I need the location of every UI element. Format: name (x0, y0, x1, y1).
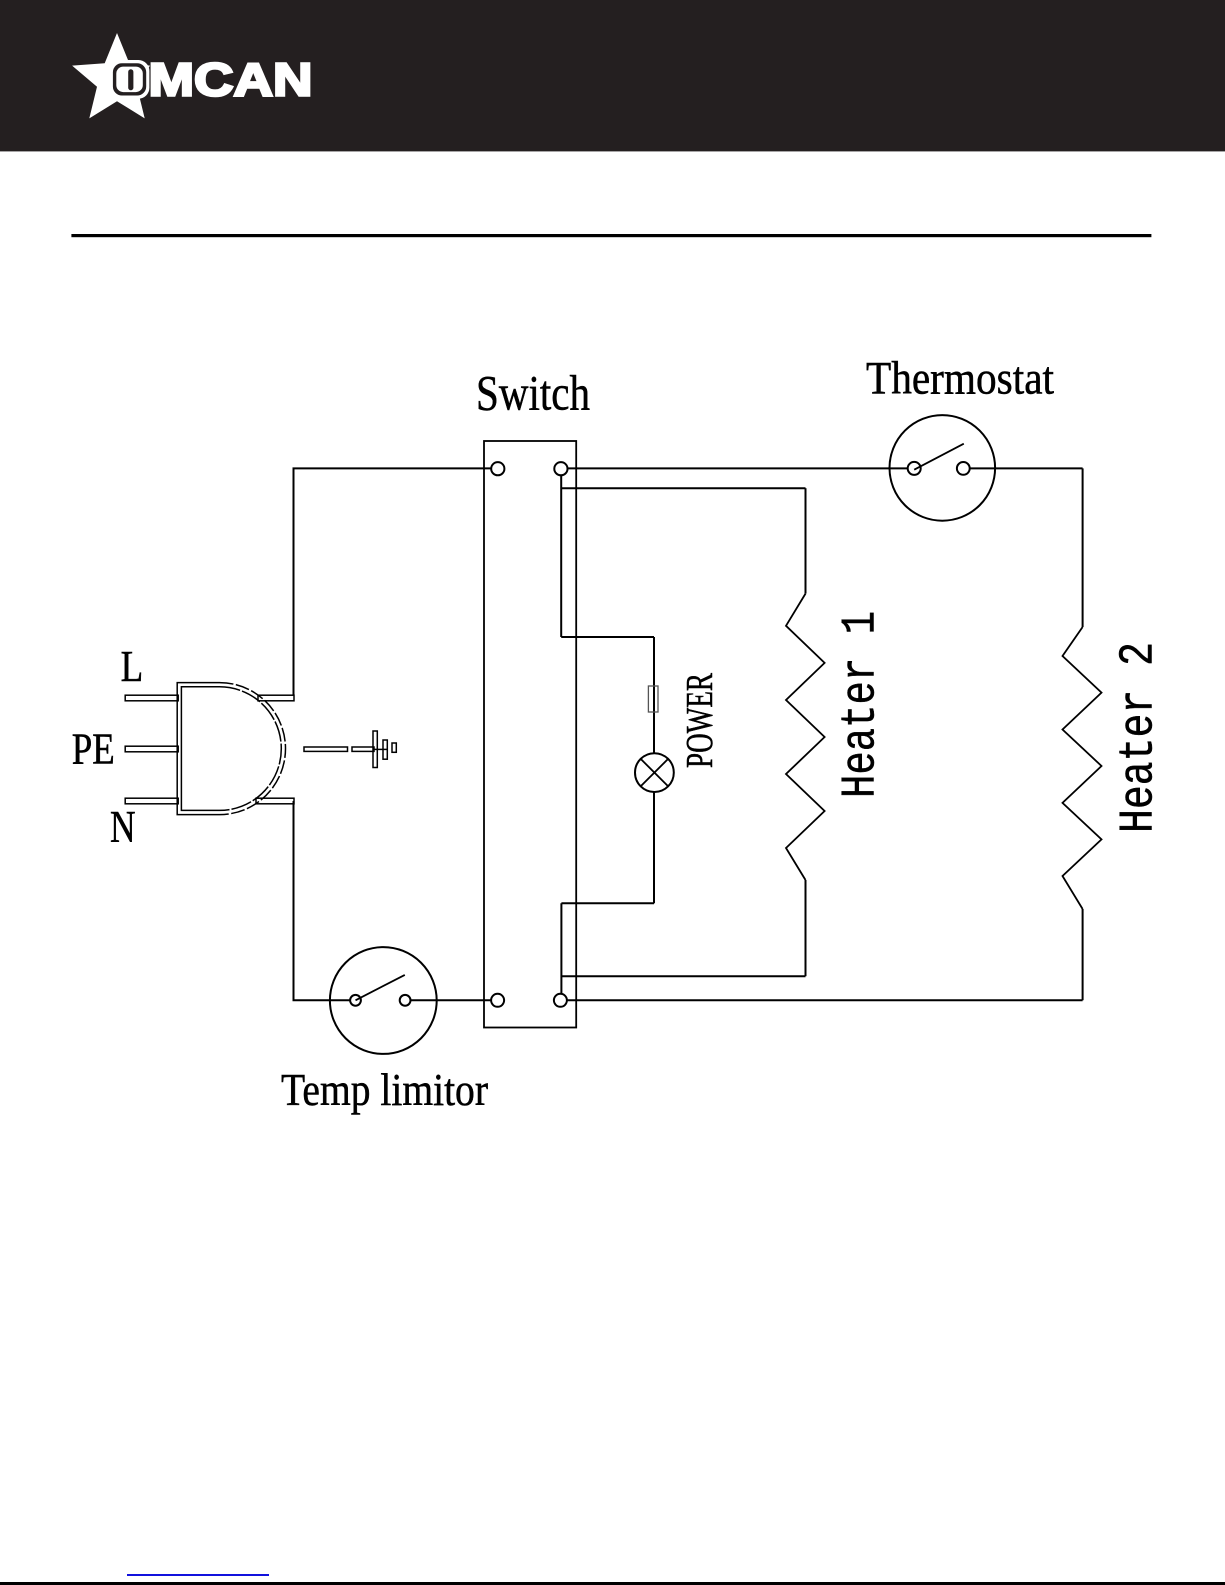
switch terminal 3 (491, 994, 504, 1007)
plug P1 body (177, 683, 285, 815)
wire top rail: switch terminal 2 to thermostat (568, 467, 908, 469)
logo star (72, 33, 150, 118)
switch terminal 4 (554, 994, 567, 1007)
footer link underline (127, 1574, 269, 1576)
label POWER (679, 673, 721, 768)
wire bottom rail: temp limitor to switch terminal 3 (411, 999, 492, 1001)
svg-text:Heater 2: Heater 2 (1113, 642, 1167, 833)
temp limitor contact right (400, 995, 411, 1006)
wire right vertical to heater 2 (1082, 468, 1084, 627)
heater R1 zigzag (786, 594, 825, 880)
thermostat blade (914, 444, 964, 470)
svg-text:Temp limitor: Temp limitor (281, 1064, 488, 1115)
wire heater 1 bottom vertical (805, 880, 807, 976)
svg-text:Heater 1: Heater 1 (835, 611, 889, 798)
wire heater 1 top horizontal (561, 487, 805, 489)
wire lamp branch: from switch terminal 2 down (560, 475, 562, 637)
divider rule (71, 234, 1151, 237)
switch terminal 2 (554, 462, 567, 475)
label N (110, 802, 136, 852)
label Heater 1 (835, 611, 889, 798)
wire heater 1 top vertical (805, 488, 807, 593)
switch block S1 (484, 441, 576, 1028)
temp limitor blade (356, 975, 405, 1000)
wire lamp bottom horizontal (561, 902, 654, 904)
svg-text:N: N (110, 802, 136, 852)
wire lamp branch vertical through fuse (653, 637, 655, 753)
label PE (72, 725, 115, 774)
svg-text:L: L (121, 642, 144, 691)
label Switch (476, 364, 590, 420)
thermostat contact right (957, 462, 970, 475)
thermostat body (890, 415, 996, 521)
wire bottom rail: switch terminal 4 to heater 2 bottom (567, 999, 1083, 1001)
svg-text:Switch: Switch (476, 364, 590, 420)
svg-text:Thermostat: Thermostat (866, 353, 1054, 405)
wire top rail left: plug L to switch terminal 1 (294, 468, 492, 695)
wire heater 2 bottom vertical (1082, 909, 1084, 1000)
fuse F1 (648, 686, 658, 712)
wire lamp bottom vertical (653, 792, 655, 903)
svg-text:MCAN: MCAN (149, 54, 313, 106)
wire heater 1 bottom horizontal (561, 975, 805, 977)
label Thermostat (866, 353, 1054, 405)
bottom page edge (0, 1582, 1225, 1585)
wire junction vertical to switch terminal 4 (560, 903, 562, 994)
thermostat contact left (908, 462, 921, 475)
ground symbol (304, 731, 396, 768)
svg-text:PE: PE (72, 725, 115, 774)
temp limitor body (330, 947, 437, 1054)
header bar (0, 0, 1225, 151)
switch terminal 1 (491, 462, 504, 475)
wire top rail: thermostat to right corner (970, 467, 1083, 469)
label Heater 2 (1113, 642, 1167, 833)
wire left vertical: plug N down to bottom rail (294, 801, 351, 1000)
plug prong PE (125, 746, 178, 752)
lamp POWER indicator (635, 753, 674, 792)
plug prong L (125, 695, 294, 701)
temp limitor contact left (350, 995, 361, 1006)
logo text MCAN (149, 54, 313, 106)
svg-text:POWER: POWER (679, 673, 721, 768)
plug prong N (125, 798, 294, 804)
heater R2 zigzag (1063, 627, 1102, 909)
label Temp limitor (281, 1064, 488, 1115)
wire lamp branch horizontal (561, 636, 654, 638)
label L (121, 642, 144, 691)
logo O badge (110, 60, 150, 99)
